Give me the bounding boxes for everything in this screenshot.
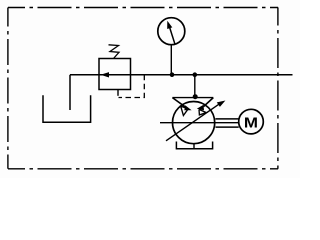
svg-text:M: M	[244, 116, 258, 132]
